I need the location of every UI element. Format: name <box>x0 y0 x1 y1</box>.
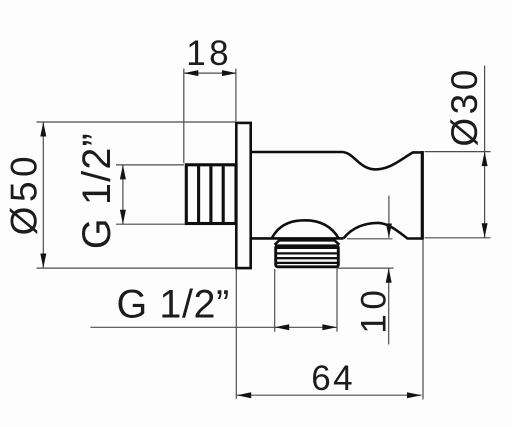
dimension 10: upper dimension line segment <box>388 196 390 238</box>
dimension 64: left arrow <box>237 392 252 398</box>
dimension 18: extension line right <box>235 69 237 122</box>
dimension D30: bottom arrow <box>482 223 488 238</box>
dimension G1/2 outlet: extension line left <box>274 269 276 332</box>
dimension G1/2 outlet: extension line right <box>336 269 338 332</box>
dimension 10: lower arrow (up) <box>386 268 392 283</box>
dimension 64: dimension line <box>237 394 422 396</box>
dimension G1/2 vertical: top arrow <box>120 165 126 180</box>
dimension G1/2 vertical: bottom arrow <box>120 210 126 225</box>
dimension D50: top arrow <box>40 122 46 137</box>
body right end cap <box>421 151 424 240</box>
svg-text:10: 10 <box>355 286 394 334</box>
dimension D30: top arrow <box>482 152 488 167</box>
svg-text:64: 64 <box>311 359 355 398</box>
dimension 64: extension line right <box>422 240 424 400</box>
dimension D50: extension line bottom <box>37 267 235 269</box>
dimension 10: extension line at outlet bottom <box>336 267 394 269</box>
inlet thread G1/2 (left, vertical hatch) <box>186 165 236 224</box>
outlet thread block (horizontal hatch) <box>275 246 339 267</box>
body top outline <box>251 152 423 169</box>
dimension G1/2 outlet: right arrow <box>322 324 337 330</box>
dimension 10: lower dimension line segment <box>388 268 390 344</box>
dimension 18: dimension line <box>184 72 237 74</box>
dimension 10: reference extension at body bottom <box>347 238 393 240</box>
body bottom outline with boss and hook waves <box>251 220 423 238</box>
dimension D50: dimension line <box>42 122 44 268</box>
dimension G1/2 outlet: left arrow <box>275 324 290 330</box>
dimension 64: right arrow <box>407 392 422 398</box>
svg-text:Ø50: Ø50 <box>4 152 45 235</box>
dimension G1/2 vertical: extension line top <box>116 164 184 166</box>
dimension G1/2 outlet: leader and dimension line <box>91 326 337 328</box>
dimension D30: extension line top <box>425 151 491 153</box>
svg-text:G 1/2”: G 1/2” <box>117 283 230 327</box>
svg-text:Ø30: Ø30 <box>444 66 485 146</box>
dimension 18: left arrow <box>184 70 199 76</box>
svg-text:18: 18 <box>186 34 232 73</box>
dimension D50: extension line top <box>37 121 236 123</box>
wall flange plate <box>236 123 250 268</box>
dimension D30: extension line bottom <box>425 237 491 239</box>
dimension G1/2 vertical: dimension line <box>122 165 124 224</box>
dimension 18: extension line left <box>183 69 185 164</box>
dimension 64: extension line left <box>235 270 237 399</box>
dimension 18: right arrow <box>222 70 237 76</box>
svg-text:G 1/2”: G 1/2” <box>75 132 119 249</box>
dimension G1/2 vertical: extension line bottom <box>116 223 185 225</box>
dimension D50: bottom arrow <box>40 254 46 269</box>
outlet collar <box>275 240 340 244</box>
dimension D30: dimension line <box>484 66 486 238</box>
dimension 10: upper arrow (down) <box>386 224 392 239</box>
